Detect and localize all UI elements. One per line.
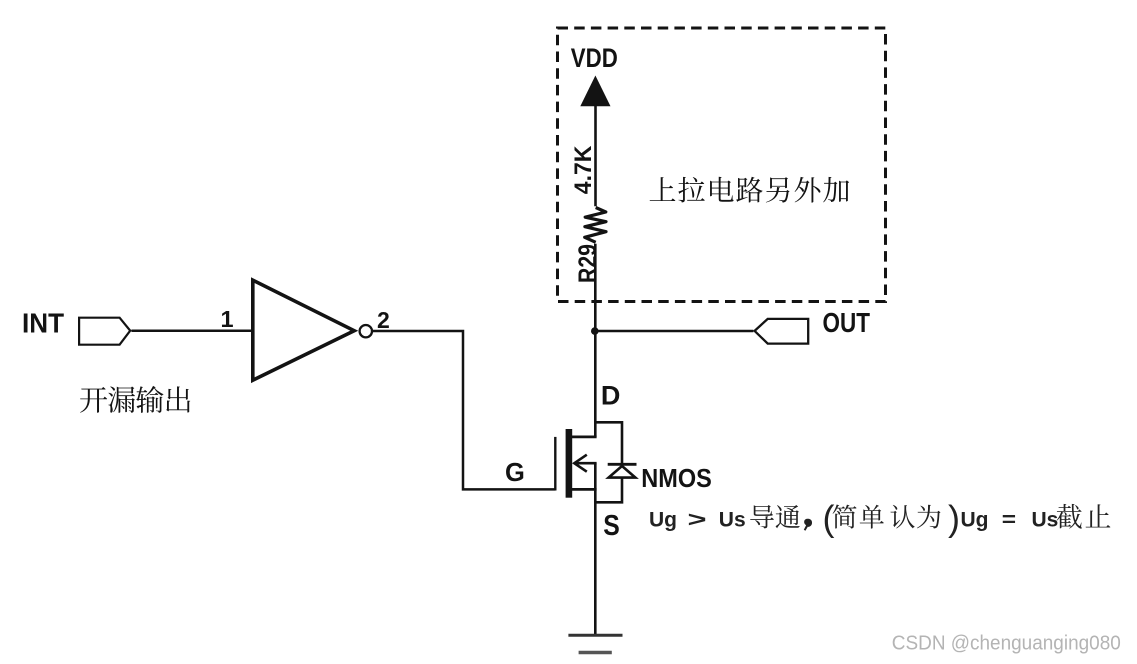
port INT connector	[79, 318, 130, 345]
svg-text:S: S	[603, 510, 620, 542]
svg-text:1: 1	[221, 306, 234, 332]
ground symbol bar 1	[568, 634, 622, 637]
wire resistor to junction	[594, 244, 597, 332]
svg-text:4.7K: 4.7K	[570, 145, 597, 194]
body diode triangle	[609, 466, 636, 478]
svg-text:2: 2	[377, 307, 390, 333]
svg-text:Ug: Ug	[961, 509, 989, 532]
svg-text:): )	[948, 498, 960, 539]
wire INT to inverter input	[131, 329, 251, 332]
inverter output bubble	[360, 325, 372, 337]
svg-text:OUT: OUT	[823, 307, 871, 338]
transistor Q1 substrate arrow	[574, 462, 597, 465]
body diode branch top wire	[595, 422, 622, 464]
annotation 导通	[750, 505, 774, 528]
body diode bottom wire	[596, 478, 622, 503]
transistor Q1 drain lead	[572, 435, 597, 438]
ground symbol bar 2	[579, 651, 612, 654]
wire VDD arrow to resistor	[594, 103, 597, 206]
annotation 上拉电路另外加 (pull-up circuit added externally)	[650, 177, 676, 201]
svg-text:CSDN @chenguanging080: CSDN @chenguanging080	[892, 632, 1121, 655]
annotation comma and paren	[804, 519, 812, 531]
inverter U1 triangle	[253, 280, 354, 380]
transistor Q1 channel bar	[566, 429, 573, 498]
svg-text:=: =	[1002, 509, 1016, 532]
wire source pin down to ground	[594, 463, 597, 635]
dashed annotation box	[558, 28, 886, 302]
svg-text:D: D	[601, 380, 621, 410]
svg-text:NMOS: NMOS	[641, 463, 712, 493]
node junction dot	[591, 327, 599, 335]
svg-text:>: >	[688, 509, 707, 532]
svg-text:(: (	[823, 498, 835, 539]
resistor R29 zigzag	[585, 208, 606, 243]
svg-text:INT: INT	[22, 307, 64, 338]
power VDD arrow	[580, 76, 610, 107]
annotation 简单认为	[833, 505, 857, 529]
svg-text:Us: Us	[719, 509, 746, 532]
transistor Q1 source lead	[572, 488, 597, 491]
svg-text:Us: Us	[1032, 509, 1059, 532]
wire inverter output to NMOS gate	[372, 331, 555, 489]
wire drain pin up to junction	[594, 329, 597, 437]
port OUT connector	[755, 319, 809, 344]
svg-text:VDD: VDD	[571, 43, 618, 73]
svg-text:G: G	[505, 459, 525, 487]
wire junction to OUT	[595, 330, 753, 332]
svg-text:R29: R29	[574, 244, 602, 283]
svg-text:Ug: Ug	[649, 509, 677, 532]
annotation 截止	[1057, 504, 1082, 529]
annotation 开漏输出 (open-drain output)	[80, 387, 107, 413]
transistor Q1 NMOS gate bar	[554, 437, 556, 491]
body diode cathode bar	[608, 463, 637, 466]
